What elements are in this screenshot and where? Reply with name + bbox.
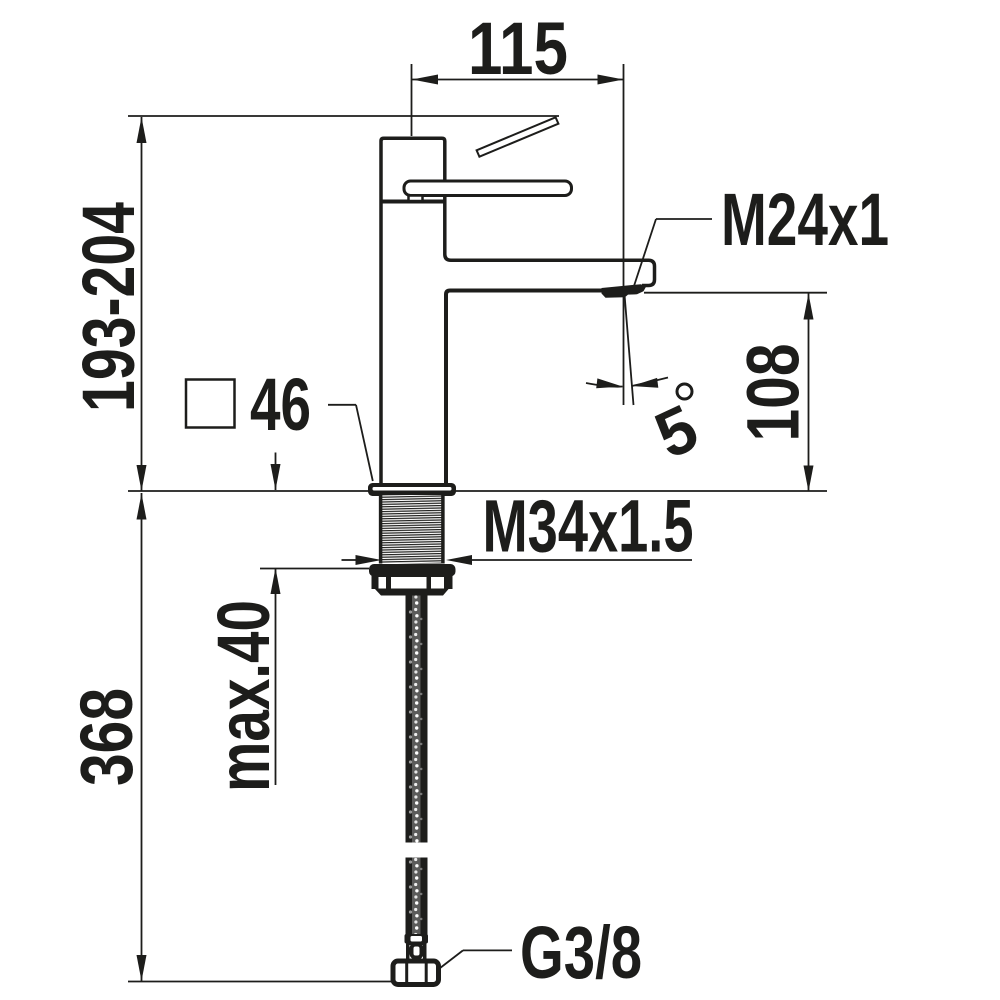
svg-text:max.40: max.40 (202, 600, 285, 792)
svg-text:M24x1: M24x1 (721, 178, 889, 261)
svg-text:368: 368 (65, 688, 148, 786)
svg-text:115: 115 (468, 7, 568, 90)
svg-text:108: 108 (732, 344, 815, 442)
svg-text:M34x1.5: M34x1.5 (483, 485, 694, 568)
svg-text:G3/8: G3/8 (520, 911, 642, 994)
svg-text:46: 46 (250, 363, 311, 446)
svg-text:193-204: 193-204 (67, 202, 150, 412)
